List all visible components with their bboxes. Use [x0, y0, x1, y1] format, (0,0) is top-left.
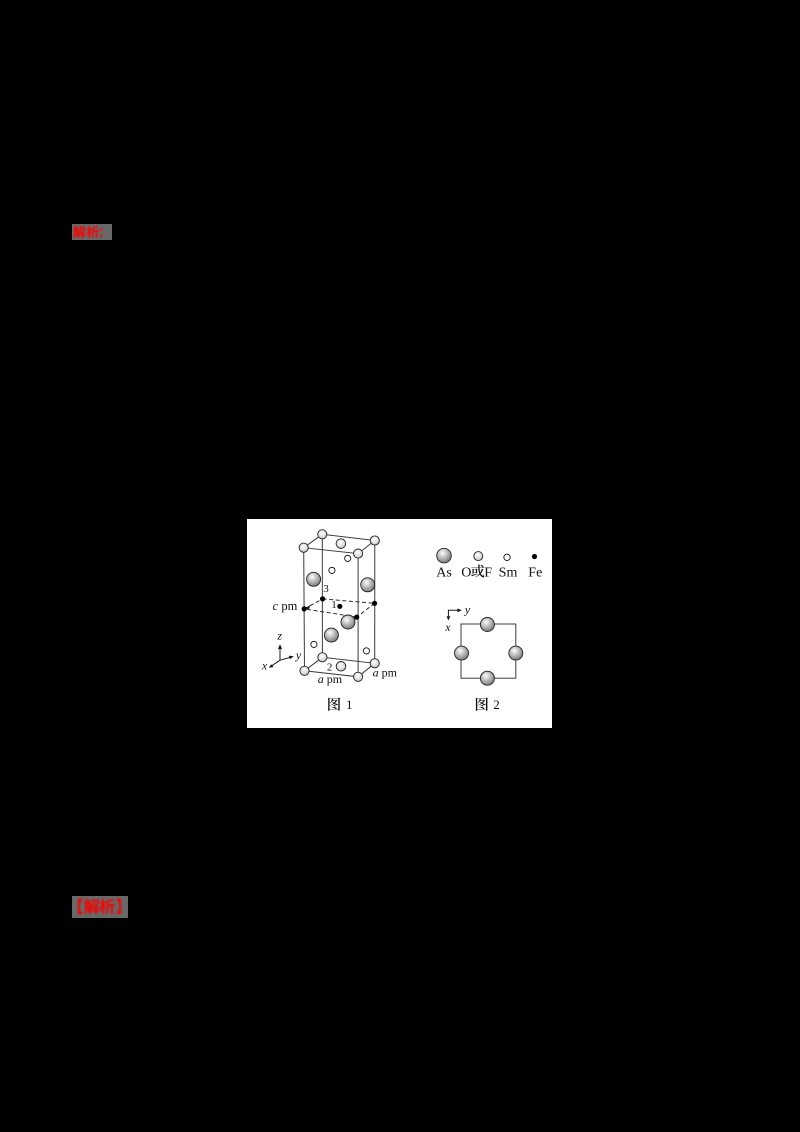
red highlight badge 1	[72, 224, 112, 240]
svg-text:y: y	[464, 603, 471, 617]
legend Fe dot	[532, 554, 537, 559]
svg-text:z: z	[276, 629, 282, 643]
svg-text:1: 1	[331, 599, 337, 611]
atom O corner bottom-front-right	[354, 672, 363, 681]
wire vertical edge back-right	[374, 541, 376, 664]
atom O top-face center	[336, 539, 346, 549]
svg-text:3: 3	[323, 583, 329, 595]
atom Fe back-left (3)	[320, 596, 325, 601]
atom O corner top-front-right	[354, 549, 363, 558]
figure panel (white)	[247, 519, 552, 728]
fig2 square	[461, 624, 516, 678]
z axis arrowhead	[278, 644, 282, 649]
atom Sm lower-right	[363, 648, 369, 654]
atom Sm upper-right	[345, 555, 351, 561]
fig2 axes	[448, 610, 460, 618]
svg-text:1: 1	[346, 697, 353, 712]
fig2 atom right	[509, 646, 523, 660]
wire top face	[304, 534, 375, 553]
atom Fe front-right	[354, 615, 359, 620]
svg-text:y: y	[295, 648, 302, 662]
wire vertical edge front-left	[303, 548, 306, 671]
atom As mid-left	[324, 628, 338, 642]
atom O corner top-back-right	[370, 536, 379, 545]
atom O corner top-back-left	[318, 530, 327, 539]
fig2 x axis arrowhead	[447, 616, 451, 620]
caption glyph tu 2	[476, 698, 488, 711]
legend Sm circle	[504, 554, 510, 560]
svg-text:O: O	[461, 565, 471, 580]
y axis arrowhead	[289, 656, 294, 660]
axes fig1	[270, 647, 292, 667]
fig2 atom bottom	[480, 671, 494, 685]
wire vertical edge front-right	[357, 554, 359, 677]
atom As upper-left	[307, 572, 321, 586]
svg-text:c pm: c pm	[273, 599, 298, 613]
x axis arrowhead	[269, 664, 274, 668]
legend As sphere	[437, 548, 452, 563]
wire vertical edge back-left	[321, 534, 323, 657]
atom O corner bottom-front-left	[300, 666, 309, 675]
fig2 atom top	[480, 618, 494, 632]
arrowhead at left Fe dot	[305, 605, 310, 609]
svg-text:x: x	[261, 659, 268, 673]
red highlight badge 2	[72, 896, 128, 918]
svg-text:As: As	[436, 565, 452, 580]
atom Fe back-right	[372, 601, 377, 606]
atom Fe left edge	[302, 606, 307, 611]
atom Fe center (1)	[337, 604, 342, 609]
svg-text:x: x	[444, 620, 451, 634]
svg-text:Sm: Sm	[499, 565, 518, 580]
legend glyph huo	[471, 564, 484, 577]
atom O bottom-face center	[336, 662, 346, 672]
atom O corner top-front-left	[299, 543, 308, 552]
atom Sm lower-left	[311, 641, 317, 647]
svg-text:2: 2	[493, 697, 500, 712]
atom O corner bottom-back-right	[370, 659, 379, 668]
atom Sm upper-left	[329, 567, 335, 573]
atom As mid-right	[341, 615, 355, 629]
svg-text:Fe: Fe	[528, 565, 542, 580]
legend O sphere	[474, 552, 483, 561]
atom O corner bottom-back-left	[318, 653, 327, 662]
fig2 atom left	[455, 646, 469, 660]
wire bottom face	[305, 657, 375, 677]
fig2 y axis arrowhead	[457, 608, 462, 612]
svg-text:a pm: a pm	[318, 672, 343, 686]
svg-text:a pm: a pm	[373, 666, 398, 680]
dashed Fe plane	[304, 599, 374, 617]
atom As upper-right	[361, 578, 375, 592]
svg-text:F: F	[484, 565, 492, 580]
caption glyph tu 1	[328, 698, 340, 711]
